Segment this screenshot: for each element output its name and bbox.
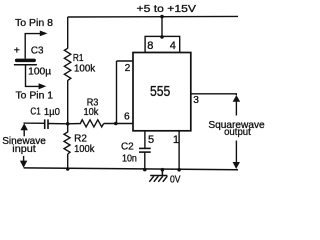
- svg-text:C2: C2: [121, 142, 134, 153]
- svg-text:10k: 10k: [84, 107, 100, 118]
- wire pin 3 output: [191, 94, 237, 95]
- arrow output up: [233, 95, 241, 102]
- wire R2 bottom: [67, 154, 69, 169]
- svg-text:100µ: 100µ: [28, 67, 51, 78]
- svg-text:555: 555: [150, 84, 170, 100]
- arrow sinewave down: [23, 156, 25, 161]
- arrow to pin 8: [40, 31, 48, 37]
- node supply rail junction dot: [160, 15, 164, 19]
- svg-text:100k: 100k: [74, 144, 95, 155]
- node pins 2-6 tie junction dot: [114, 122, 118, 126]
- wire supply to IC: [161, 17, 163, 37]
- node A junction dot: [66, 122, 70, 126]
- node IC supply junction dot: [160, 35, 164, 39]
- arrow output down: [235, 141, 237, 163]
- svg-text:3: 3: [193, 95, 199, 106]
- svg-text:To Pin 1: To Pin 1: [16, 90, 54, 101]
- node ground tap junction dot: [161, 168, 165, 172]
- wire pin 1 to ground rail: [178, 131, 180, 170]
- wire pins 2-6 tie vertical: [116, 61, 118, 124]
- svg-text:+: +: [14, 45, 20, 57]
- svg-text:100k: 100k: [74, 64, 96, 75]
- resistor R3: [68, 120, 104, 127]
- wire C2 to ground rail: [144, 153, 146, 170]
- svg-text:5: 5: [148, 134, 154, 146]
- wire input to C1: [24, 121, 44, 124]
- resistor R2: [64, 124, 70, 154]
- svg-text:4: 4: [170, 40, 176, 52]
- svg-text:R2: R2: [74, 133, 87, 144]
- svg-text:C1: C1: [30, 107, 41, 118]
- svg-text:output: output: [224, 127, 251, 138]
- wire R1 branch upper: [67, 17, 69, 49]
- svg-text:8: 8: [147, 40, 153, 52]
- wire C3 top to arrow: [25, 34, 40, 59]
- op-amp U1 555 top stub pins 8 4: [145, 36, 180, 52]
- resistor R1: [64, 48, 70, 80]
- wire C1 to node A: [48, 123, 68, 125]
- capacitor C2 bottom plate: [139, 151, 151, 153]
- node C2 ground junction dot: [143, 168, 147, 172]
- svg-text:input: input: [12, 144, 36, 155]
- svg-text:C3: C3: [31, 46, 44, 57]
- node R2 ground junction dot: [66, 167, 70, 171]
- svg-text:To Pin 8: To Pin 8: [15, 18, 53, 29]
- capacitor C2 top plate: [139, 147, 151, 149]
- svg-text:10n: 10n: [122, 153, 137, 164]
- svg-text:1µ0: 1µ0: [44, 107, 60, 118]
- wire bottom ground rail: [24, 168, 238, 170]
- wire pin 2 stub: [117, 60, 133, 62]
- node pin1 ground junction dot: [177, 168, 181, 172]
- svg-text:2: 2: [125, 63, 131, 74]
- wire C3 bottom to arrow: [26, 66, 40, 87]
- arrow sinewave up: [21, 123, 28, 130]
- svg-text:+5 to +15V: +5 to +15V: [137, 4, 197, 15]
- svg-text:0V: 0V: [170, 175, 181, 186]
- capacitor C1 right plate: [47, 119, 49, 129]
- capacitor C3 top plate: [15, 59, 36, 63]
- op-amp U1 555 body: [133, 53, 191, 131]
- wire pin 5 to C2: [144, 131, 146, 148]
- capacitor C1 left plate: [44, 119, 46, 129]
- svg-text:1: 1: [173, 134, 179, 146]
- wire R1 bottom to node A: [67, 80, 69, 124]
- ground symbol: [149, 170, 167, 182]
- svg-text:R1: R1: [73, 53, 84, 64]
- capacitor C3 bottom plate: [14, 64, 37, 66]
- arrow to pin 1: [39, 83, 47, 89]
- wire top supply rail: [68, 15, 238, 18]
- wire R3 to pin 6: [104, 123, 133, 125]
- svg-text:6: 6: [124, 112, 130, 123]
